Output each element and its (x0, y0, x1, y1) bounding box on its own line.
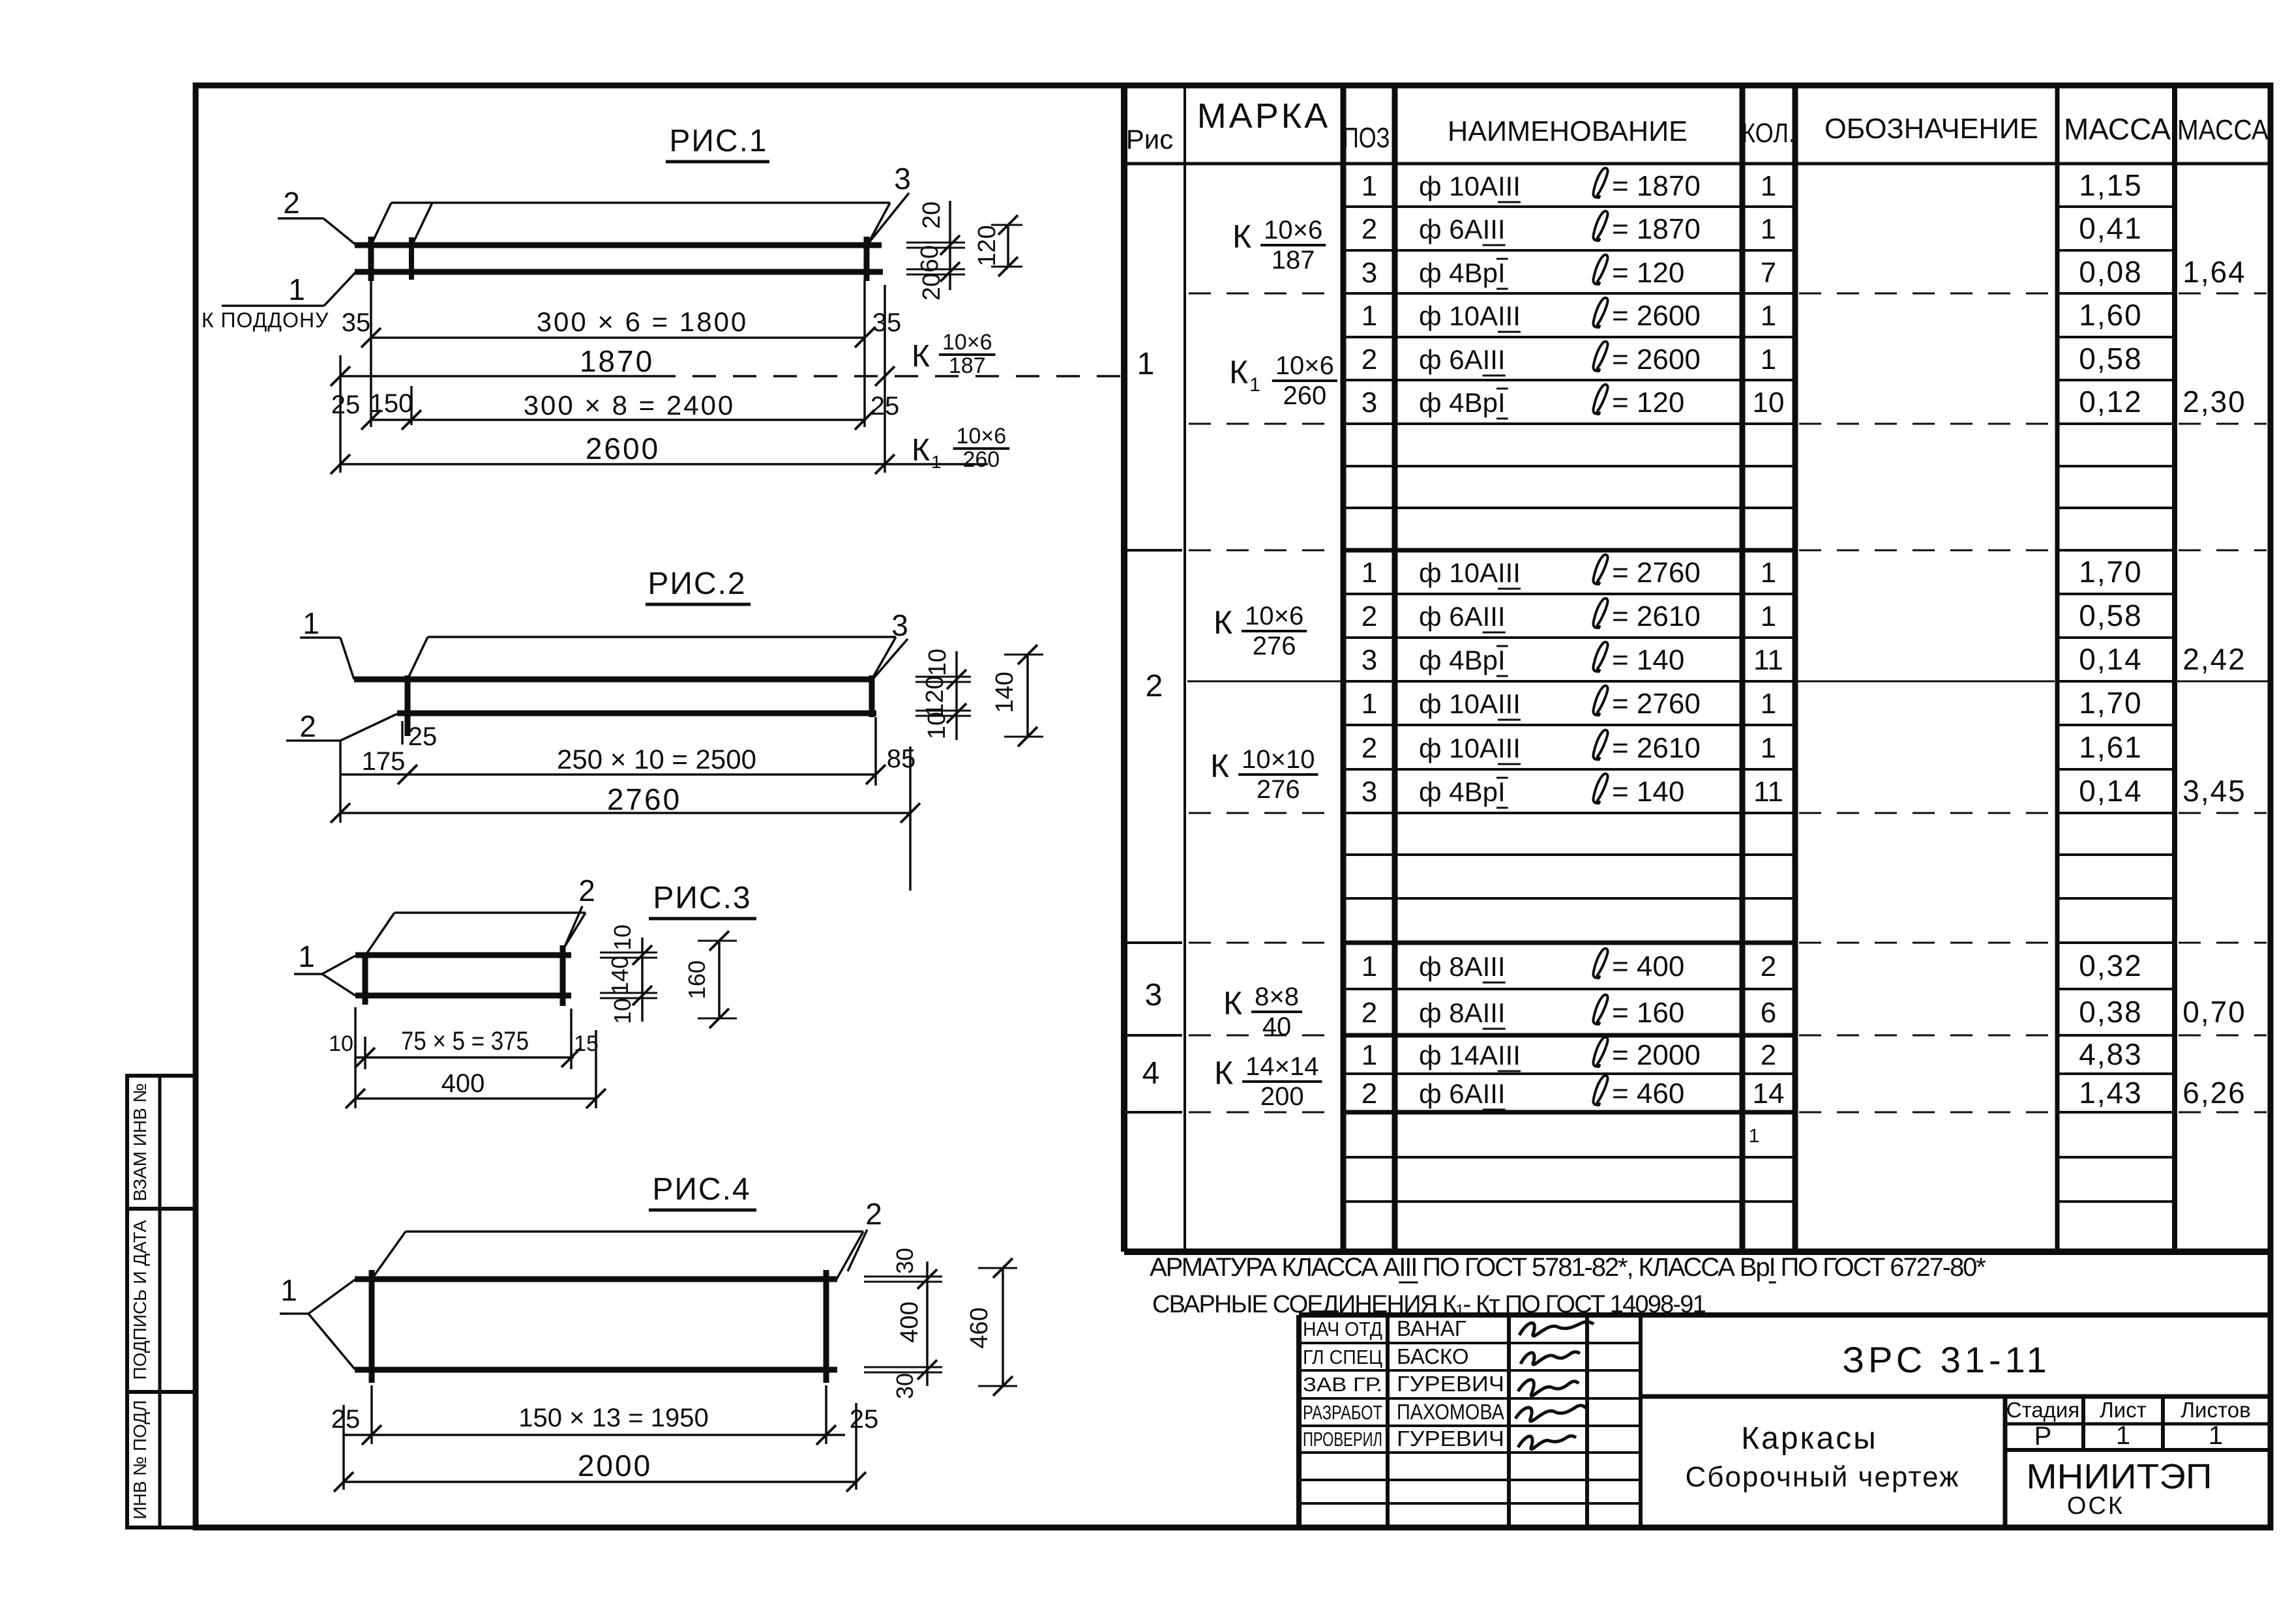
svg-text:276: 276 (1253, 632, 1296, 660)
svg-text:10: 10 (609, 924, 636, 951)
svg-text:35: 35 (872, 308, 902, 337)
svg-text:40: 40 (1262, 1012, 1292, 1041)
svg-text:35: 35 (342, 308, 371, 337)
svg-text:6: 6 (1761, 997, 1776, 1029)
svg-text:1: 1 (1761, 600, 1776, 632)
svg-text:0,14: 0,14 (2079, 642, 2143, 676)
svg-text:187: 187 (1272, 246, 1315, 274)
svg-text:2000: 2000 (578, 1449, 652, 1483)
svg-text:НАИМЕНОВАНИЕ: НАИМЕНОВАНИЕ (1448, 115, 1688, 147)
svg-text:400: 400 (896, 1301, 923, 1342)
svg-text:= 2610: = 2610 (1612, 732, 1701, 764)
svg-text:К: К (1214, 1055, 1233, 1091)
svg-text:175: 175 (362, 747, 406, 776)
svg-text:К: К (1229, 354, 1248, 391)
svg-text:2: 2 (1362, 600, 1377, 632)
svg-text:ф 6АIII: ф 6АIII (1419, 1078, 1506, 1109)
svg-text:0,58: 0,58 (2079, 598, 2143, 632)
svg-text:= 2610: = 2610 (1612, 600, 1701, 632)
svg-text:10×6: 10×6 (1264, 216, 1322, 244)
svg-text:1,70: 1,70 (2079, 555, 2143, 589)
svg-text:10×6: 10×6 (942, 330, 992, 355)
svg-text:АРМАТУРА КЛАССА АIII ПО ГОСТ 5: АРМАТУРА КЛАССА АIII ПО ГОСТ 5781-82*, К… (1150, 1253, 1986, 1282)
svg-text:140: 140 (606, 956, 633, 995)
svg-text:1,43: 1,43 (2079, 1076, 2143, 1110)
svg-text:2: 2 (865, 1197, 882, 1231)
svg-text:РИС.2: РИС.2 (647, 567, 746, 601)
svg-text:460: 460 (966, 1307, 993, 1348)
svg-text:1: 1 (1749, 1125, 1760, 1147)
svg-text:Сборочный чертеж: Сборочный чертеж (1685, 1461, 1959, 1493)
svg-text:3: 3 (1362, 776, 1377, 808)
svg-text:120: 120 (974, 225, 1001, 266)
svg-text:2: 2 (1761, 951, 1776, 982)
svg-text:1: 1 (1249, 374, 1260, 396)
svg-text:К: К (912, 433, 930, 467)
svg-text:120: 120 (921, 675, 949, 716)
svg-text:ГУРЕВИЧ: ГУРЕВИЧ (1397, 1426, 1504, 1451)
svg-text:300 × 6 = 1800: 300 × 6 = 1800 (537, 306, 749, 337)
svg-text:0,38: 0,38 (2079, 995, 2143, 1029)
svg-text:11: 11 (1753, 776, 1783, 808)
svg-text:25: 25 (871, 392, 900, 421)
svg-text:1: 1 (1137, 347, 1155, 381)
svg-text:7: 7 (1761, 257, 1776, 289)
svg-text:1,60: 1,60 (2079, 298, 2143, 332)
svg-text:ф 4ВрI: ф 4ВрI (1419, 258, 1506, 288)
svg-text:1: 1 (1362, 1039, 1377, 1071)
svg-text:140: 140 (991, 672, 1019, 713)
svg-text:15: 15 (574, 1031, 599, 1056)
svg-text:0,41: 0,41 (2079, 211, 2143, 245)
svg-text:3: 3 (894, 162, 911, 196)
svg-text:200: 200 (1260, 1082, 1304, 1111)
svg-text:1: 1 (1761, 732, 1776, 764)
svg-text:0,14: 0,14 (2079, 774, 2143, 808)
svg-text:ф 8АIII: ф 8АIII (1419, 997, 1506, 1028)
svg-text:3: 3 (1362, 257, 1377, 289)
svg-text:14: 14 (1753, 1078, 1785, 1110)
svg-text:МАРКА: МАРКА (1197, 96, 1331, 136)
svg-text:Лист: Лист (2100, 1398, 2147, 1422)
svg-text:2: 2 (1362, 1078, 1377, 1110)
svg-text:260: 260 (1283, 381, 1326, 410)
svg-text:ВЗАМ ИНВ №: ВЗАМ ИНВ № (130, 1083, 150, 1201)
svg-text:Каркасы: Каркасы (1741, 1421, 1878, 1456)
svg-text:1: 1 (2116, 1421, 2130, 1450)
svg-text:150: 150 (370, 389, 413, 418)
svg-text:8×8: 8×8 (1255, 982, 1299, 1011)
svg-text:= 120: = 120 (1612, 257, 1684, 289)
svg-text:20: 20 (918, 273, 945, 301)
svg-text:ф 14АIII: ф 14АIII (1419, 1040, 1521, 1070)
svg-text:МАССА: МАССА (2064, 112, 2171, 146)
svg-text:0,12: 0,12 (2079, 385, 2143, 419)
svg-text:ф 6АIII: ф 6АIII (1419, 601, 1506, 632)
svg-text:ф 4ВрI: ф 4ВрI (1419, 645, 1506, 675)
svg-text:К: К (1223, 985, 1242, 1022)
svg-text:1: 1 (298, 939, 315, 973)
svg-text:11: 11 (1753, 644, 1783, 676)
svg-text:К: К (912, 339, 930, 374)
svg-text:1: 1 (931, 452, 942, 472)
svg-text:ВАНАГ: ВАНАГ (1397, 1316, 1466, 1340)
svg-text:10×6: 10×6 (1275, 351, 1334, 380)
svg-text:= 460: = 460 (1612, 1078, 1684, 1110)
svg-text:ОБОЗНАЧЕНИЕ: ОБОЗНАЧЕНИЕ (1824, 113, 2038, 145)
svg-text:25: 25 (331, 391, 361, 419)
svg-text:1: 1 (1362, 300, 1377, 332)
svg-text:= 2760: = 2760 (1612, 688, 1701, 720)
svg-text:ОСК: ОСК (2067, 1492, 2124, 1520)
svg-text:10: 10 (1753, 387, 1785, 419)
svg-text:150 × 13 = 1950: 150 × 13 = 1950 (518, 1404, 708, 1432)
svg-text:= 400: = 400 (1612, 951, 1684, 982)
svg-text:ф 4ВрI: ф 4ВрI (1419, 776, 1506, 807)
svg-text:Р: Р (2034, 1422, 2052, 1451)
svg-text:2: 2 (299, 709, 316, 743)
svg-text:ПОДПИСЬ И ДАТА: ПОДПИСЬ И ДАТА (130, 1220, 150, 1380)
svg-text:К: К (1213, 604, 1232, 641)
svg-text:400: 400 (441, 1069, 485, 1098)
svg-text:1: 1 (1362, 688, 1377, 720)
svg-text:1: 1 (1362, 170, 1377, 202)
svg-text:10×6: 10×6 (957, 424, 1007, 449)
svg-text:Стадия: Стадия (2006, 1398, 2080, 1422)
svg-text:1: 1 (1362, 951, 1377, 982)
svg-text:ПАХОМОВА: ПАХОМОВА (1397, 1400, 1504, 1424)
svg-text:3: 3 (891, 608, 908, 642)
svg-text:2: 2 (1362, 344, 1377, 376)
svg-text:3: 3 (1362, 387, 1377, 419)
svg-text:10×6: 10×6 (1245, 602, 1303, 630)
svg-text:Листов: Листов (2180, 1398, 2250, 1422)
svg-text:2: 2 (1761, 1039, 1776, 1071)
svg-text:= 120: = 120 (1612, 387, 1684, 419)
svg-text:ЗАВ ГР.: ЗАВ ГР. (1303, 1373, 1382, 1396)
svg-text:85: 85 (887, 745, 916, 773)
svg-text:10: 10 (924, 649, 951, 676)
svg-text:= 1870: = 1870 (1612, 213, 1701, 245)
svg-text:1: 1 (1761, 344, 1776, 376)
svg-text:ф 10АIII: ф 10АIII (1419, 557, 1521, 588)
svg-text:= 140: = 140 (1612, 644, 1684, 676)
svg-text:РИС.1: РИС.1 (669, 124, 767, 158)
svg-text:ЗРС 31-11: ЗРС 31-11 (1842, 1339, 2051, 1380)
svg-text:30: 30 (891, 1373, 918, 1399)
svg-text:2: 2 (1362, 732, 1377, 764)
svg-text:2600: 2600 (586, 432, 660, 465)
svg-text:РАЗРАБОТ: РАЗРАБОТ (1303, 1401, 1382, 1424)
svg-text:Рис: Рис (1126, 124, 1173, 155)
svg-text:30: 30 (891, 1248, 918, 1274)
svg-text:10: 10 (609, 998, 636, 1024)
svg-text:РИС.4: РИС.4 (652, 1172, 751, 1207)
svg-text:ф 8АIII: ф 8АIII (1419, 951, 1506, 982)
svg-text:ф 6АIII: ф 6АIII (1419, 344, 1506, 375)
svg-text:= 2600: = 2600 (1612, 344, 1701, 376)
svg-text:2: 2 (1362, 997, 1377, 1029)
svg-text:1: 1 (1362, 557, 1377, 589)
svg-text:ф 10АIII: ф 10АIII (1419, 301, 1521, 331)
svg-text:0,32: 0,32 (2079, 949, 2143, 982)
svg-text:20: 20 (918, 201, 945, 229)
svg-text:= 160: = 160 (1612, 997, 1684, 1029)
svg-text:0,70: 0,70 (2182, 995, 2246, 1029)
svg-text:25: 25 (408, 722, 438, 751)
svg-text:276: 276 (1257, 775, 1300, 804)
svg-text:75 × 5 = 375: 75 × 5 = 375 (401, 1027, 529, 1056)
svg-text:ИНВ № ПОДЛ: ИНВ № ПОДЛ (130, 1400, 150, 1519)
svg-text:2: 2 (578, 874, 595, 908)
svg-text:25: 25 (331, 1405, 361, 1434)
svg-text:ф 4ВрI: ф 4ВрI (1419, 387, 1506, 418)
svg-text:К: К (1232, 218, 1251, 255)
svg-text:1: 1 (303, 606, 320, 640)
svg-text:ф 6АIII: ф 6АIII (1419, 214, 1506, 244)
svg-text:МНИИТЭП: МНИИТЭП (2027, 1457, 2212, 1496)
svg-text:1,64: 1,64 (2182, 255, 2246, 289)
svg-text:4: 4 (1142, 1056, 1160, 1091)
svg-text:3: 3 (1145, 978, 1163, 1012)
svg-text:ГУРЕВИЧ: ГУРЕВИЧ (1397, 1372, 1504, 1396)
svg-text:К ПОДДОНУ: К ПОДДОНУ (201, 308, 329, 332)
svg-text:2760: 2760 (607, 782, 681, 816)
svg-text:НАЧ ОТД: НАЧ ОТД (1303, 1318, 1382, 1340)
svg-text:ф 10АIII: ф 10АIII (1419, 688, 1521, 719)
svg-text:14×14: 14×14 (1245, 1052, 1318, 1081)
svg-text:1: 1 (1761, 557, 1776, 589)
svg-text:0,58: 0,58 (2079, 342, 2143, 376)
svg-text:= 2600: = 2600 (1612, 300, 1701, 332)
svg-text:ф 10АIII: ф 10АIII (1419, 171, 1521, 201)
svg-text:ГЛ СПЕЦ: ГЛ СПЕЦ (1303, 1346, 1382, 1368)
svg-text:160: 160 (683, 960, 710, 999)
svg-text:4,83: 4,83 (2079, 1037, 2143, 1071)
svg-text:= 140: = 140 (1612, 776, 1684, 808)
svg-text:1,70: 1,70 (2079, 686, 2143, 720)
svg-text:60: 60 (916, 245, 944, 273)
svg-text:10: 10 (329, 1031, 353, 1056)
svg-text:К: К (1210, 748, 1229, 784)
svg-text:1,61: 1,61 (2079, 730, 2143, 764)
svg-text:250 × 10 = 2500: 250 × 10 = 2500 (557, 744, 756, 775)
svg-text:10: 10 (923, 712, 951, 739)
svg-text:10×10: 10×10 (1242, 745, 1315, 774)
svg-text:= 2760: = 2760 (1612, 557, 1701, 589)
svg-text:1: 1 (288, 273, 305, 306)
svg-text:0,08: 0,08 (2079, 255, 2143, 289)
svg-text:3: 3 (1362, 644, 1377, 676)
svg-text:1: 1 (1761, 300, 1776, 332)
svg-text:МАССА: МАССА (2177, 114, 2269, 146)
svg-text:187: 187 (949, 353, 986, 378)
svg-text:300 × 8 = 2400: 300 × 8 = 2400 (524, 390, 736, 421)
svg-text:2: 2 (1362, 213, 1377, 245)
svg-text:ф 10АIII: ф 10АIII (1419, 733, 1521, 763)
svg-text:2,30: 2,30 (2182, 385, 2246, 419)
svg-text:ПРОВЕРИЛ: ПРОВЕРИЛ (1303, 1428, 1382, 1451)
svg-text:= 1870: = 1870 (1612, 170, 1701, 202)
svg-text:2: 2 (1146, 669, 1163, 703)
svg-text:25: 25 (850, 1405, 879, 1434)
svg-text:1870: 1870 (580, 344, 654, 378)
svg-text:1: 1 (1761, 170, 1776, 202)
svg-text:КОЛ.: КОЛ. (1742, 117, 1795, 148)
svg-text:= 2000: = 2000 (1612, 1039, 1701, 1071)
svg-text:БАСКО: БАСКО (1397, 1344, 1469, 1368)
svg-text:ПОЗ.: ПОЗ. (1343, 122, 1396, 154)
svg-text:6,26: 6,26 (2182, 1076, 2246, 1110)
svg-text:1: 1 (2209, 1421, 2223, 1450)
svg-text:3,45: 3,45 (2182, 774, 2246, 808)
svg-text:1: 1 (280, 1273, 297, 1307)
svg-text:1: 1 (1761, 213, 1776, 245)
svg-text:260: 260 (962, 447, 1000, 472)
svg-text:2: 2 (283, 186, 300, 220)
svg-text:1: 1 (1761, 688, 1776, 720)
svg-text:РИС.3: РИС.3 (653, 881, 751, 915)
svg-text:1,15: 1,15 (2079, 168, 2143, 202)
svg-text:2,42: 2,42 (2182, 642, 2246, 676)
